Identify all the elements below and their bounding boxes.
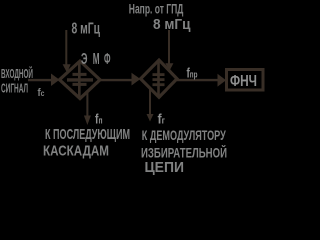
svg-text:Э: Э [81,51,88,68]
svg-text:ФНЧ: ФНЧ [230,73,257,90]
svg-text:К ДЕМОДУЛЯТОРУ: К ДЕМОДУЛЯТОРУ [142,128,226,143]
svg-text:fс: fс [38,87,45,99]
svg-text:ЦЕПИ: ЦЕПИ [145,159,185,176]
svg-text:ВХОДНОЙ: ВХОДНОЙ [1,66,33,81]
svg-text:К ПОСЛЕДУЮЩИМ: К ПОСЛЕДУЮЩИМ [45,126,130,143]
svg-text:8 мГц: 8 мГц [72,21,101,38]
svg-text:СИГНАЛ: СИГНАЛ [1,81,28,96]
svg-text:Напр. от ГПД: Напр. от ГПД [129,1,184,17]
svg-text:М: М [93,51,100,68]
svg-text:КАСКАДАМ: КАСКАДАМ [43,143,109,160]
svg-text:8 мГц: 8 мГц [153,16,191,33]
svg-text:Ф: Ф [104,51,111,68]
